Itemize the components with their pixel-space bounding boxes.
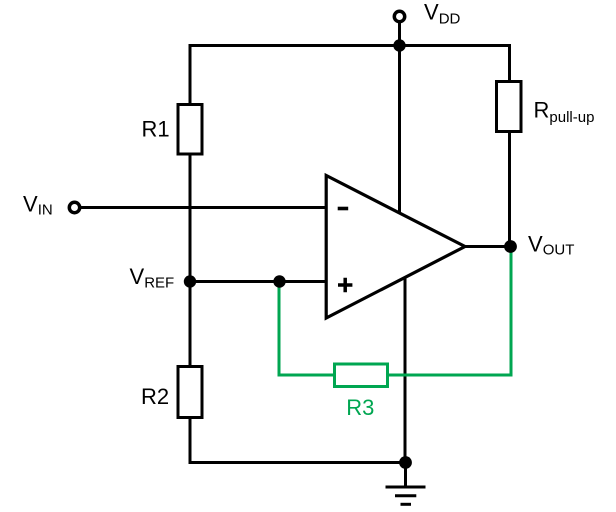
svg-text:VDD: VDD [424, 0, 461, 27]
svg-text:R1: R1 [142, 117, 170, 142]
wire V_DD terminal stub [398, 21, 401, 48]
wire left branch middle (R1 to R2 through V_IN crossing and V_REF node) [189, 155, 192, 366]
wire V_IN input to inverting input [80, 206, 328, 209]
svg-text:R3: R3 [346, 395, 374, 420]
op-amp U1 [326, 176, 465, 319]
wire green feedback from V_REF node down and right to R3 [279, 282, 334, 375]
wire green from R3 right to V_OUT node [388, 247, 511, 375]
node feedback tap junction [273, 275, 285, 287]
node V_REF junction on divider [184, 275, 196, 287]
wire V_REF to non-inverting input [190, 280, 328, 283]
terminal V_IN [69, 202, 79, 212]
wire positive supply (top rail to op-amp top edge) [398, 46, 401, 213]
svg-text:R2: R2 [141, 384, 169, 409]
svg-text:VOUT: VOUT [528, 232, 574, 259]
svg-text:VIN: VIN [23, 192, 53, 219]
wire right branch lower (R_pull-up to V_OUT node) [508, 132, 511, 247]
svg-text:VREF: VREF [130, 264, 175, 291]
resistor R1 [142, 105, 203, 155]
resistor R3 [335, 364, 388, 420]
node V_OUT junction [504, 240, 517, 253]
terminal V_DD [394, 11, 404, 21]
ground [386, 461, 426, 504]
resistor R2 [141, 367, 202, 418]
wire right branch upper (top rail to R_pull-up) [508, 44, 511, 81]
node V_DD junction [393, 39, 405, 51]
wire negative supply (op-amp bottom edge to bottom rail) [404, 279, 407, 465]
node ground junction [399, 456, 412, 469]
resistor Rpull-up [497, 82, 595, 132]
wire left branch upper (top rail to R1) [189, 44, 192, 104]
wire top rail V_DD [189, 44, 512, 47]
wire left branch lower (R2 to bottom rail) [189, 418, 192, 464]
wire op-amp output to V_OUT node [463, 245, 511, 248]
wire bottom rail [189, 461, 406, 464]
svg-text:Rpull-up: Rpull-up [534, 97, 595, 126]
